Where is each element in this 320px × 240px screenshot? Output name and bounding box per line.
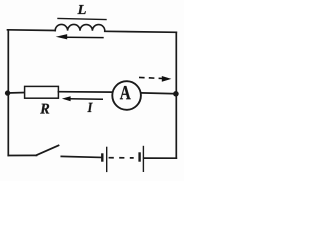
node junction dot right	[173, 91, 179, 97]
battery cell 1 long plate	[106, 147, 108, 172]
wire resistor to ammeter	[58, 91, 112, 93]
battery cell 2 short plate	[138, 152, 140, 161]
label A	[120, 86, 131, 99]
node junction dot left	[5, 90, 10, 95]
wire bottom left segment	[8, 154, 36, 156]
wire branch left lead	[8, 92, 25, 95]
label R	[40, 104, 49, 114]
inductor core bar	[58, 19, 106, 20]
inductor L coil	[55, 24, 105, 30]
label L	[77, 5, 85, 14]
wire right vertical	[175, 32, 177, 158]
wire left vertical	[7, 30, 9, 155]
label I	[87, 103, 92, 112]
battery dashed link	[109, 157, 134, 159]
current arrow under inductor	[56, 34, 104, 39]
current arrow I on branch	[62, 96, 103, 101]
battery cell 1 short plate	[101, 153, 103, 161]
wire top left segment	[8, 29, 56, 32]
ammeter U1 circle	[112, 81, 141, 110]
wire battery to switch contact	[61, 156, 101, 157]
battery cell 2 long plate	[142, 146, 144, 172]
switch blade (open)	[36, 145, 58, 155]
wire top right segment	[105, 31, 177, 32]
wire ammeter to right node	[141, 92, 176, 95]
resistor R box	[25, 86, 59, 98]
dashed arrow at ammeter	[139, 76, 171, 82]
wire bottom right segment	[144, 157, 177, 159]
